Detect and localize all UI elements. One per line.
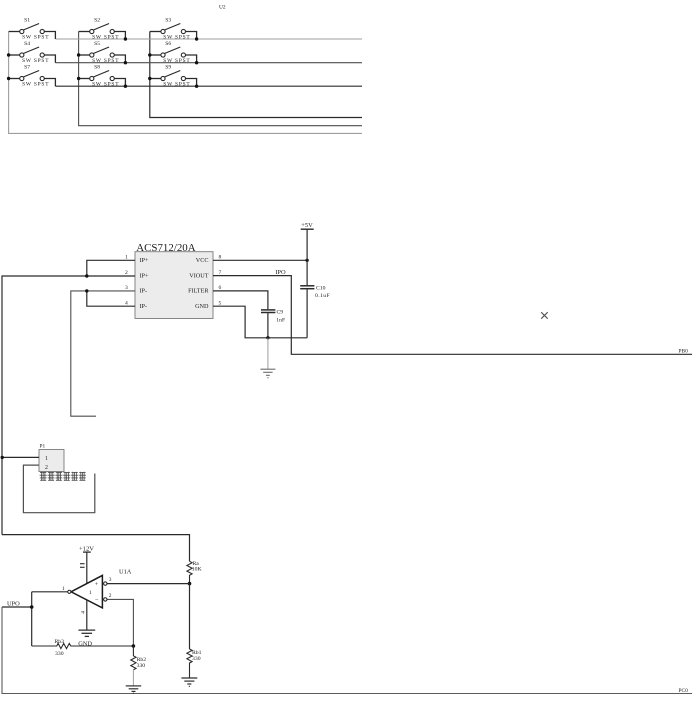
junction on column bus xyxy=(7,77,10,80)
svg-text:U1A: U1A xyxy=(119,568,132,575)
wire VIOUT / IPO net to PB0 xyxy=(213,269,692,355)
svg-text:SW SPST: SW SPST xyxy=(163,58,190,64)
no-connect X mark xyxy=(541,312,548,319)
svg-text:S2: S2 xyxy=(94,17,100,23)
wire Rb2 to ground xyxy=(132,670,134,686)
switch S7 (SW SPST) xyxy=(9,64,56,87)
IC U? ACS712/20A body xyxy=(135,242,213,319)
pin 7 VIOUT (right) xyxy=(189,270,221,280)
switch S6 (SW SPST) xyxy=(150,41,197,64)
capacitor C9 1nF xyxy=(261,310,285,338)
wire row-1 output line xyxy=(55,38,362,40)
svg-text:330: 330 xyxy=(55,651,64,657)
svg-text:1: 1 xyxy=(125,255,128,261)
svg-text:SW SPST: SW SPST xyxy=(22,58,49,64)
switch S1 (SW SPST) xyxy=(9,17,56,40)
svg-text:2: 2 xyxy=(109,593,112,599)
svg-text:PB0: PB0 xyxy=(679,349,689,355)
pin 4 IP- (left) xyxy=(125,300,147,310)
svg-text:2: 2 xyxy=(125,270,128,276)
svg-text:+5V: +5V xyxy=(301,222,313,229)
svg-text:P1: P1 xyxy=(40,444,46,450)
svg-text:SW SPST: SW SPST xyxy=(22,82,49,88)
wire FILTER pin6 to C9 xyxy=(213,291,268,309)
svg-text:330: 330 xyxy=(137,663,146,669)
junction on row line xyxy=(124,37,127,40)
svg-text:4: 4 xyxy=(81,611,87,614)
svg-text:1: 1 xyxy=(89,590,92,596)
wire row-2 output line xyxy=(55,62,362,64)
svg-text:IP+: IP+ xyxy=(140,272,150,279)
junction on row line xyxy=(124,61,127,64)
junction UPO xyxy=(30,605,34,609)
wire op-amp pin2 input xyxy=(107,599,133,646)
junction on column bus xyxy=(148,77,151,80)
wire P1 pin2 loop xyxy=(23,465,94,513)
wire P1 pin1 xyxy=(2,456,39,458)
wire output / UPO node xyxy=(32,591,68,593)
svg-text:6: 6 xyxy=(219,285,222,291)
svg-text:+12V: +12V xyxy=(79,545,94,552)
junction on row line xyxy=(195,37,198,40)
svg-text:IP+: IP+ xyxy=(140,257,150,264)
switch S3 (SW SPST) xyxy=(150,17,197,40)
resistor Ra 10K xyxy=(187,561,203,583)
svg-text:+: + xyxy=(95,581,99,588)
pin 5 GND (right) xyxy=(195,300,221,310)
text label taiyangneng dianchiban (solar panel) xyxy=(40,472,86,481)
svg-text:C9: C9 xyxy=(277,310,284,316)
wire output down to feedback rail xyxy=(31,592,33,646)
wire column-3 bus xyxy=(150,32,362,118)
junction on column bus xyxy=(7,53,10,56)
junction on column bus xyxy=(77,77,80,80)
svg-text:IPO: IPO xyxy=(275,269,286,276)
svg-text:1nF: 1nF xyxy=(276,318,285,324)
op-amp U1A xyxy=(62,568,132,608)
ground (Rb1) xyxy=(181,678,197,686)
pin 6 FILTER (right) xyxy=(188,285,221,295)
junction P1 pin1 on left bus xyxy=(1,456,4,459)
wire pin1 IP+ to junction xyxy=(87,260,135,276)
svg-text:S4: S4 xyxy=(24,41,30,47)
junction on row line xyxy=(124,85,127,88)
svg-text:S7: S7 xyxy=(24,64,30,70)
wire GND pin5 to cap bottoms xyxy=(213,306,307,338)
svg-text:−: − xyxy=(95,597,99,604)
svg-text:330: 330 xyxy=(192,656,201,662)
svg-text:FILTER: FILTER xyxy=(188,288,209,295)
svg-text:S1: S1 xyxy=(24,17,30,23)
pin 1 IP+ (left) xyxy=(125,255,149,265)
svg-text:0.1uF: 0.1uF xyxy=(315,293,330,299)
wire op-amp pin4 to ground xyxy=(86,600,88,630)
svg-text:10K: 10K xyxy=(192,567,203,573)
svg-text:S5: S5 xyxy=(94,41,100,47)
junction pins1-2 xyxy=(85,274,88,277)
resistor Rb1 330 xyxy=(187,649,202,678)
switch S9 (SW SPST) xyxy=(150,64,197,87)
svg-text:SW SPST: SW SPST xyxy=(22,34,49,40)
wire op-amp pin3 input xyxy=(107,583,190,585)
junction feedback node xyxy=(132,644,136,648)
resistor Rb3 330 (feedback) xyxy=(32,639,134,657)
ground (Rb2) xyxy=(126,686,142,693)
svg-text:8: 8 xyxy=(219,255,222,261)
svg-text:IP-: IP- xyxy=(140,288,148,295)
svg-text:5: 5 xyxy=(219,300,222,306)
svg-text:C10: C10 xyxy=(316,285,326,291)
resistor Rb2 330 xyxy=(131,646,146,670)
wire to ground symbol xyxy=(267,338,269,369)
pin 8 number (rotated) xyxy=(80,564,85,568)
switch S2 (SW SPST) xyxy=(79,17,126,40)
svg-text:2: 2 xyxy=(45,465,48,471)
wire pin4 IP- to junction xyxy=(87,291,135,306)
svg-text:SW SPST: SW SPST xyxy=(163,34,190,40)
svg-text:7: 7 xyxy=(219,270,222,276)
pin 2 IP+ (left) xyxy=(125,270,149,280)
svg-text:IP-: IP- xyxy=(140,303,148,310)
svg-text:SW SPST: SW SPST xyxy=(92,82,119,88)
wire divider to Rb1 xyxy=(189,584,191,649)
junction pins3-4 xyxy=(85,289,88,292)
pin 8 VCC (right) xyxy=(196,255,222,265)
svg-text:Rb2: Rb2 xyxy=(137,657,147,663)
svg-text:SW SPST: SW SPST xyxy=(92,58,119,64)
svg-text:PC0: PC0 xyxy=(679,688,689,694)
power +5V xyxy=(301,222,314,260)
svg-text:VCC: VCC xyxy=(196,257,209,264)
svg-text:GND: GND xyxy=(195,303,209,310)
pin 3 IP- (left) xyxy=(125,285,147,295)
svg-text:3: 3 xyxy=(109,577,112,583)
capacitor C10 0.1uF xyxy=(300,260,330,338)
power +12V xyxy=(79,545,94,583)
wire pin2 IP+ net to left edge xyxy=(2,276,135,535)
wire UPO to PC0 rail xyxy=(2,607,692,694)
svg-text:U2: U2 xyxy=(219,5,226,11)
ground (ACS712 bypass) xyxy=(260,369,275,378)
switch S4 (SW SPST) xyxy=(9,41,56,64)
svg-text:S8: S8 xyxy=(94,64,100,70)
junction Ra / pin3 xyxy=(188,582,192,586)
switch S8 (SW SPST) xyxy=(79,64,126,87)
junction on column bus xyxy=(148,53,151,56)
svg-text:S3: S3 xyxy=(165,17,171,23)
svg-text:SW SPST: SW SPST xyxy=(92,34,119,40)
wire top rail of comparator stage xyxy=(2,535,190,562)
svg-text:ACS712/20A: ACS712/20A xyxy=(136,242,195,254)
svg-text:SW SPST: SW SPST xyxy=(163,82,190,88)
wire column-1 bus xyxy=(9,32,362,134)
svg-text:Rb3: Rb3 xyxy=(55,639,65,645)
svg-text:1: 1 xyxy=(62,586,65,592)
wire pin3 IP- open stub xyxy=(71,291,135,416)
junction VCC node xyxy=(305,259,308,262)
svg-text:S6: S6 xyxy=(165,41,171,47)
svg-text:VIOUT: VIOUT xyxy=(189,272,208,279)
switch S5 (SW SPST) xyxy=(79,41,126,64)
svg-text:3: 3 xyxy=(125,285,128,291)
wire row-3 output line xyxy=(55,85,362,87)
junction C9 / gnd rail xyxy=(266,336,269,339)
svg-text:1: 1 xyxy=(45,456,48,462)
wire column-2 bus xyxy=(79,32,362,126)
connector P1 xyxy=(39,444,64,472)
junction on column bus xyxy=(77,53,80,56)
svg-text:Rb1: Rb1 xyxy=(192,650,202,656)
svg-text:4: 4 xyxy=(125,300,128,306)
junction on row line xyxy=(195,85,198,88)
ground GND (op-amp) xyxy=(78,630,95,648)
wire VCC pin8 to +5V xyxy=(213,259,307,261)
junction on row line xyxy=(195,61,198,64)
svg-text:S9: S9 xyxy=(165,64,171,70)
wire UPO stub xyxy=(2,606,32,608)
